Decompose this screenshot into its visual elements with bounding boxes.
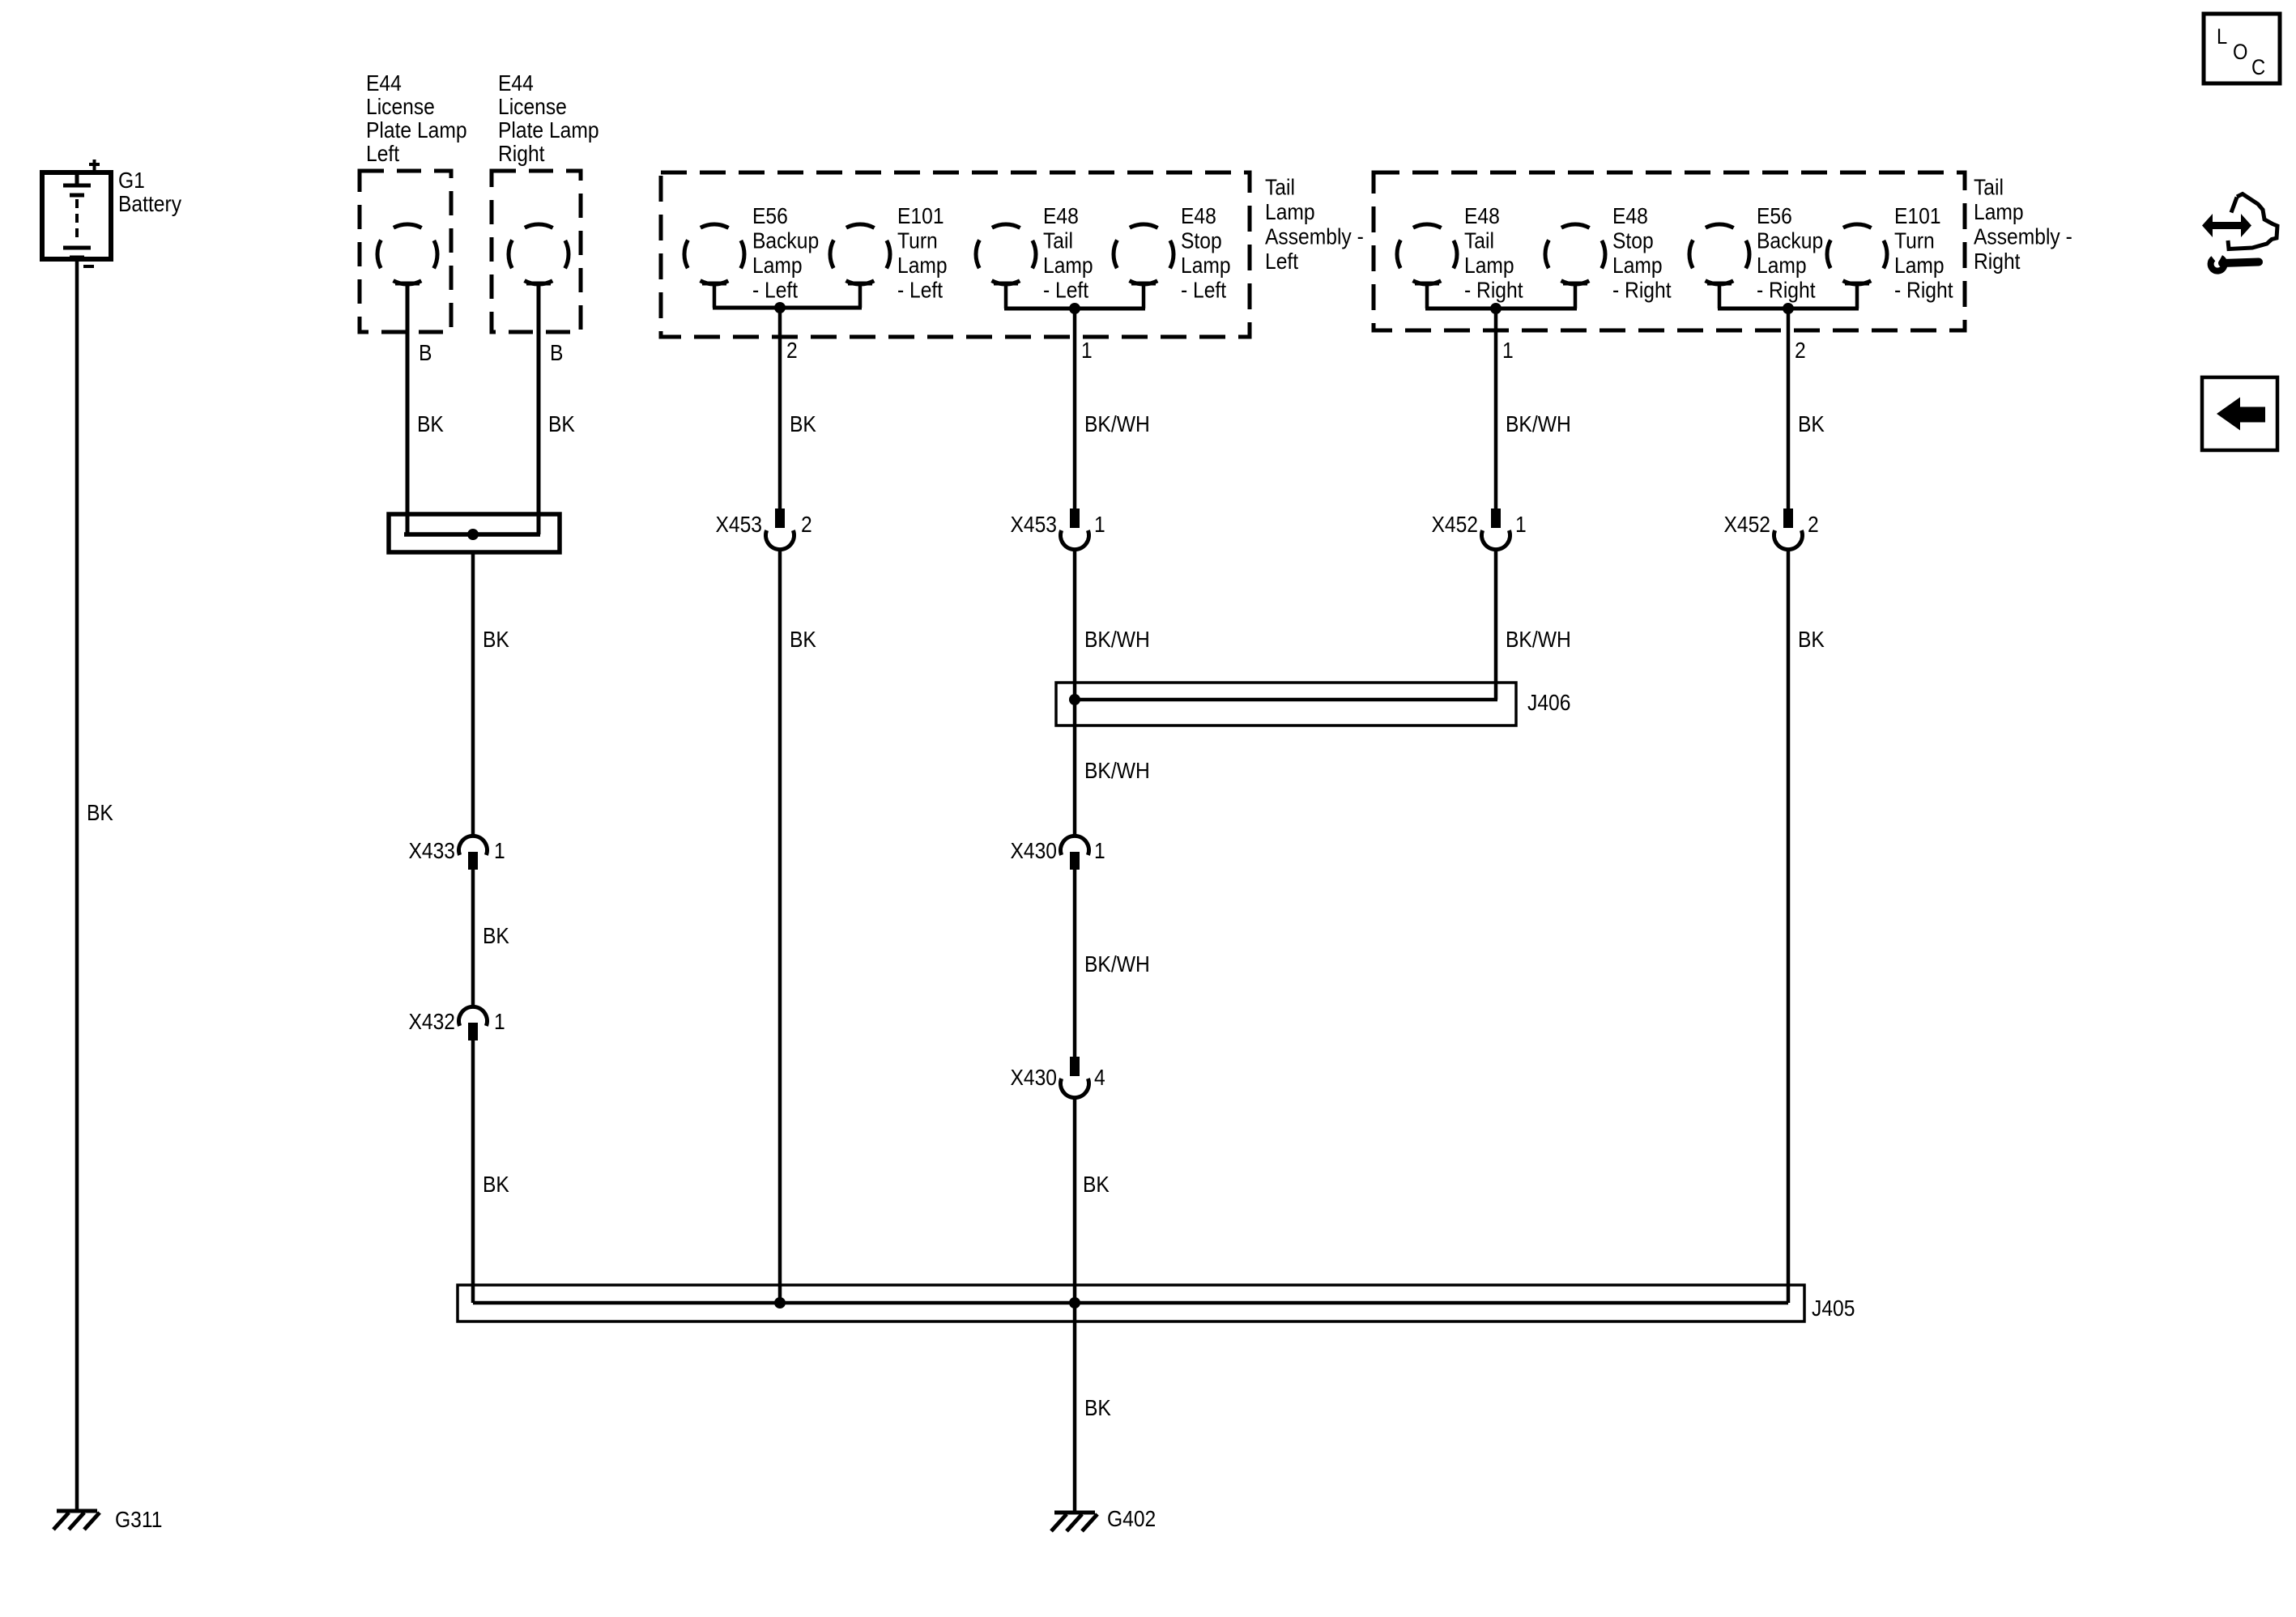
- svg-text:E101: E101: [1894, 203, 1941, 229]
- wire X430-1 to X430-4: [1073, 870, 1077, 1057]
- wire splice down: [471, 552, 475, 837]
- svg-text:Backup: Backup: [752, 228, 819, 253]
- svg-text:Lamp: Lamp: [1265, 199, 1315, 225]
- svg-text:O: O: [2233, 40, 2247, 65]
- svg-text:G402: G402: [1107, 1506, 1156, 1532]
- wire E44 left to splice: [406, 285, 410, 534]
- svg-text:B: B: [550, 340, 563, 366]
- E44 License Plate Lamp Left box: [360, 171, 451, 332]
- connector X452 pin 1: [1482, 509, 1510, 550]
- svg-text:Left: Left: [1265, 249, 1299, 274]
- connector X432 pin 1: [459, 1006, 488, 1040]
- svg-text:Tail: Tail: [1464, 228, 1494, 253]
- wire junction down to X452 pin 2: [1787, 309, 1791, 509]
- svg-text:E48: E48: [1181, 203, 1216, 229]
- svg-text:Lamp: Lamp: [752, 253, 803, 279]
- svg-text:B: B: [419, 340, 432, 366]
- svg-text:X433: X433: [408, 838, 455, 864]
- wire X433 to X432: [471, 870, 475, 1008]
- splice inner wire: [404, 532, 540, 537]
- label E101 Turn Lamp Left: [897, 203, 948, 303]
- svg-text:BK: BK: [790, 627, 816, 653]
- label E56 Backup Lamp Left: [752, 203, 819, 303]
- connector X430 pin 1: [1061, 836, 1089, 870]
- svg-text:BK: BK: [1083, 1172, 1110, 1198]
- wire X452-1 to J406: [1494, 549, 1498, 700]
- svg-text:License: License: [366, 94, 435, 120]
- svg-text:BK/WH: BK/WH: [1084, 951, 1150, 977]
- svg-text:Battery: Battery: [118, 191, 182, 217]
- connector X433 pin 1: [459, 836, 488, 870]
- svg-text:Right: Right: [1974, 249, 2021, 274]
- svg-text:BK/WH: BK/WH: [1506, 411, 1571, 437]
- svg-text:Lamp: Lamp: [1181, 253, 1231, 279]
- svg-text:1: 1: [494, 838, 505, 864]
- connector X453 pin 2: [766, 509, 794, 550]
- wire J405 to G402: [1073, 1303, 1077, 1511]
- junction dot: [1069, 694, 1080, 705]
- svg-text:BK: BK: [417, 411, 444, 437]
- svg-text:Plate Lamp: Plate Lamp: [366, 117, 467, 143]
- svg-text:E56: E56: [1757, 203, 1792, 229]
- splice box license lamps: [389, 514, 560, 552]
- double arrow: [2202, 214, 2251, 237]
- svg-text:E101: E101: [897, 203, 944, 229]
- svg-text:E48: E48: [1464, 203, 1500, 229]
- lamp E56 Backup Right bulb: [1689, 224, 1749, 284]
- svg-text:Tail: Tail: [1043, 228, 1073, 253]
- svg-text:Turn: Turn: [897, 228, 938, 253]
- lamp E48 Stop Right bulb: [1545, 224, 1605, 284]
- svg-text:Lamp: Lamp: [1464, 253, 1514, 279]
- svg-text:1: 1: [1502, 338, 1514, 364]
- lamp E48 Tail Left bulb: [976, 224, 1036, 284]
- svg-text:BK: BK: [87, 800, 113, 826]
- svg-text:X453: X453: [715, 512, 762, 538]
- wire battery to G311: [75, 259, 79, 1509]
- svg-text:J406: J406: [1527, 690, 1570, 716]
- wire junction down to X452 pin 1: [1494, 309, 1498, 510]
- svg-text:- Right: - Right: [1757, 277, 1816, 303]
- lamp E44 left bulb: [377, 224, 437, 284]
- svg-text:- Right: - Right: [1894, 277, 1953, 303]
- vehicle direction icon: [2202, 194, 2277, 271]
- svg-text:1: 1: [1094, 512, 1105, 538]
- svg-text:1: 1: [1081, 338, 1093, 364]
- wire E48-E48 right junction: [1425, 285, 1577, 309]
- svg-text:BK: BK: [790, 411, 816, 437]
- label Tail Lamp Assembly Right: [1974, 174, 2072, 274]
- junction dot: [1783, 303, 1794, 314]
- label Tail Lamp Assembly Left: [1265, 174, 1364, 274]
- Tail Lamp Assembly Right box: [1374, 172, 1965, 330]
- svg-text:BK: BK: [1798, 411, 1825, 437]
- lamp E101 Turn Right bulb: [1827, 224, 1887, 284]
- wire E56-E101 right junction: [1718, 285, 1859, 309]
- lamp E101 Turn Left bulb: [830, 224, 890, 284]
- svg-text:BK/WH: BK/WH: [1084, 627, 1150, 653]
- label E48 Stop Lamp Right: [1612, 203, 1672, 303]
- svg-text:BK: BK: [483, 1172, 509, 1198]
- splice J406 inner wire: [1075, 698, 1497, 702]
- Tail Lamp Assembly Left box: [661, 172, 1250, 337]
- svg-text:2: 2: [1795, 338, 1806, 364]
- svg-text:Right: Right: [498, 141, 545, 167]
- svg-text:- Left: - Left: [1181, 277, 1227, 303]
- svg-text:G311: G311: [115, 1507, 162, 1533]
- wire E48-E48 left junction: [1004, 285, 1145, 309]
- svg-text:Lamp: Lamp: [1757, 253, 1807, 279]
- label E56 Backup Lamp Right: [1757, 203, 1823, 303]
- lamp E44 right bulb: [509, 224, 569, 284]
- svg-text:- Right: - Right: [1612, 277, 1672, 303]
- splice J406 box: [1056, 683, 1516, 726]
- splice J405 box: [458, 1285, 1804, 1321]
- svg-text:Assembly -: Assembly -: [1974, 223, 2072, 249]
- battery G1: [42, 160, 111, 266]
- svg-text:C: C: [2251, 56, 2265, 80]
- svg-text:Stop: Stop: [1612, 228, 1654, 253]
- label E48 Stop Lamp Left: [1181, 203, 1231, 303]
- junction dot: [1069, 1297, 1080, 1308]
- svg-text:Plate Lamp: Plate Lamp: [498, 117, 599, 143]
- svg-text:X452: X452: [1431, 512, 1478, 538]
- svg-text:Assembly -: Assembly -: [1265, 223, 1364, 249]
- svg-text:Lamp: Lamp: [1043, 253, 1093, 279]
- svg-text:E44: E44: [366, 70, 402, 96]
- label E48 Tail Lamp Left: [1043, 203, 1093, 303]
- svg-text:- Left: - Left: [752, 277, 799, 303]
- svg-text:BK/WH: BK/WH: [1084, 411, 1150, 437]
- svg-text:L: L: [2217, 25, 2227, 49]
- svg-text:License: License: [498, 94, 567, 120]
- svg-text:X453: X453: [1010, 512, 1057, 538]
- svg-text:J405: J405: [1812, 1296, 1855, 1321]
- svg-text:2: 2: [786, 338, 798, 364]
- junction dot: [1069, 303, 1080, 314]
- svg-text:E56: E56: [752, 203, 788, 229]
- svg-text:Lamp: Lamp: [1974, 199, 2024, 225]
- svg-text:BK/WH: BK/WH: [1084, 758, 1150, 784]
- wire X453-1 to J406: [1073, 549, 1077, 837]
- E44 License Plate Lamp Right box: [492, 171, 581, 332]
- battery minus sign: [83, 265, 94, 268]
- svg-text:- Left: - Left: [897, 277, 944, 303]
- connector X453 pin 1: [1061, 509, 1089, 550]
- wrench: [2211, 258, 2225, 271]
- label E101 Turn Lamp Right: [1894, 203, 1953, 303]
- svg-text:Backup: Backup: [1757, 228, 1823, 253]
- back arrow box: [2202, 377, 2277, 450]
- svg-text:X432: X432: [408, 1009, 455, 1035]
- svg-text:Tail: Tail: [1265, 174, 1295, 200]
- wire X453-2 to J405: [778, 549, 782, 1303]
- LOC legend box: [2204, 14, 2280, 83]
- battery plus sign: [89, 163, 100, 166]
- svg-text:BK: BK: [548, 411, 575, 437]
- junction dot: [774, 302, 786, 313]
- wire E44 right to splice: [537, 285, 541, 534]
- wire E56-E101 junction: [713, 285, 862, 308]
- wire X452-2 to J405: [1787, 549, 1791, 1303]
- lamp E48 Tail Right bulb: [1397, 224, 1457, 284]
- svg-text:E44: E44: [498, 70, 534, 96]
- svg-text:X430: X430: [1010, 1065, 1057, 1091]
- junction dot: [467, 529, 479, 540]
- svg-text:Lamp: Lamp: [1612, 253, 1663, 279]
- svg-text:BK: BK: [483, 923, 509, 949]
- label E48 Tail Lamp Right: [1464, 203, 1523, 303]
- svg-text:BK: BK: [483, 627, 509, 653]
- svg-text:E48: E48: [1612, 203, 1648, 229]
- svg-text:1: 1: [1515, 512, 1527, 538]
- svg-text:BK: BK: [1084, 1395, 1111, 1421]
- connector X430 pin 4: [1061, 1057, 1089, 1098]
- svg-text:1: 1: [1094, 838, 1105, 864]
- svg-text:Lamp: Lamp: [897, 253, 948, 279]
- svg-text:Turn: Turn: [1894, 228, 1935, 253]
- svg-text:X430: X430: [1010, 838, 1057, 864]
- svg-text:BK/WH: BK/WH: [1506, 627, 1571, 653]
- wire X432 to J405: [471, 1040, 475, 1303]
- wire junction down to X453 pin 2: [778, 308, 782, 509]
- svg-text:BK: BK: [1798, 627, 1825, 653]
- svg-text:Tail: Tail: [1974, 174, 2004, 200]
- LOC letters: [2217, 25, 2265, 80]
- junction dot: [774, 1297, 786, 1308]
- svg-text:1: 1: [494, 1009, 505, 1035]
- label E44 License Plate Lamp Left: [366, 70, 467, 167]
- svg-text:2: 2: [1808, 512, 1819, 538]
- svg-text:E48: E48: [1043, 203, 1079, 229]
- car outline: [2228, 194, 2277, 249]
- wire X430-4 to J405: [1073, 1097, 1077, 1303]
- svg-text:Stop: Stop: [1181, 228, 1222, 253]
- back arrow: [2217, 398, 2265, 431]
- svg-text:- Left: - Left: [1043, 277, 1089, 303]
- ground G402: [1051, 1513, 1097, 1531]
- svg-text:Left: Left: [366, 141, 400, 167]
- wire junction down to X453 pin 1: [1073, 309, 1077, 510]
- svg-text:G1: G1: [118, 168, 145, 194]
- label G1 Battery: [118, 168, 182, 217]
- junction dot: [1490, 303, 1502, 314]
- car windshield line: [2231, 198, 2237, 213]
- svg-text:4: 4: [1094, 1065, 1105, 1091]
- lamp E48 Stop Left bulb: [1114, 224, 1174, 284]
- svg-text:2: 2: [801, 512, 812, 538]
- lamp E56 Backup Left bulb: [684, 224, 744, 284]
- svg-text:X452: X452: [1723, 512, 1770, 538]
- svg-text:Lamp: Lamp: [1894, 253, 1945, 279]
- svg-text:- Right: - Right: [1464, 277, 1523, 303]
- ground G311: [53, 1511, 100, 1530]
- label E44 License Plate Lamp Right: [498, 70, 599, 167]
- splice J405 inner wire: [473, 1301, 1788, 1305]
- connector X452 pin 2: [1774, 509, 1803, 550]
